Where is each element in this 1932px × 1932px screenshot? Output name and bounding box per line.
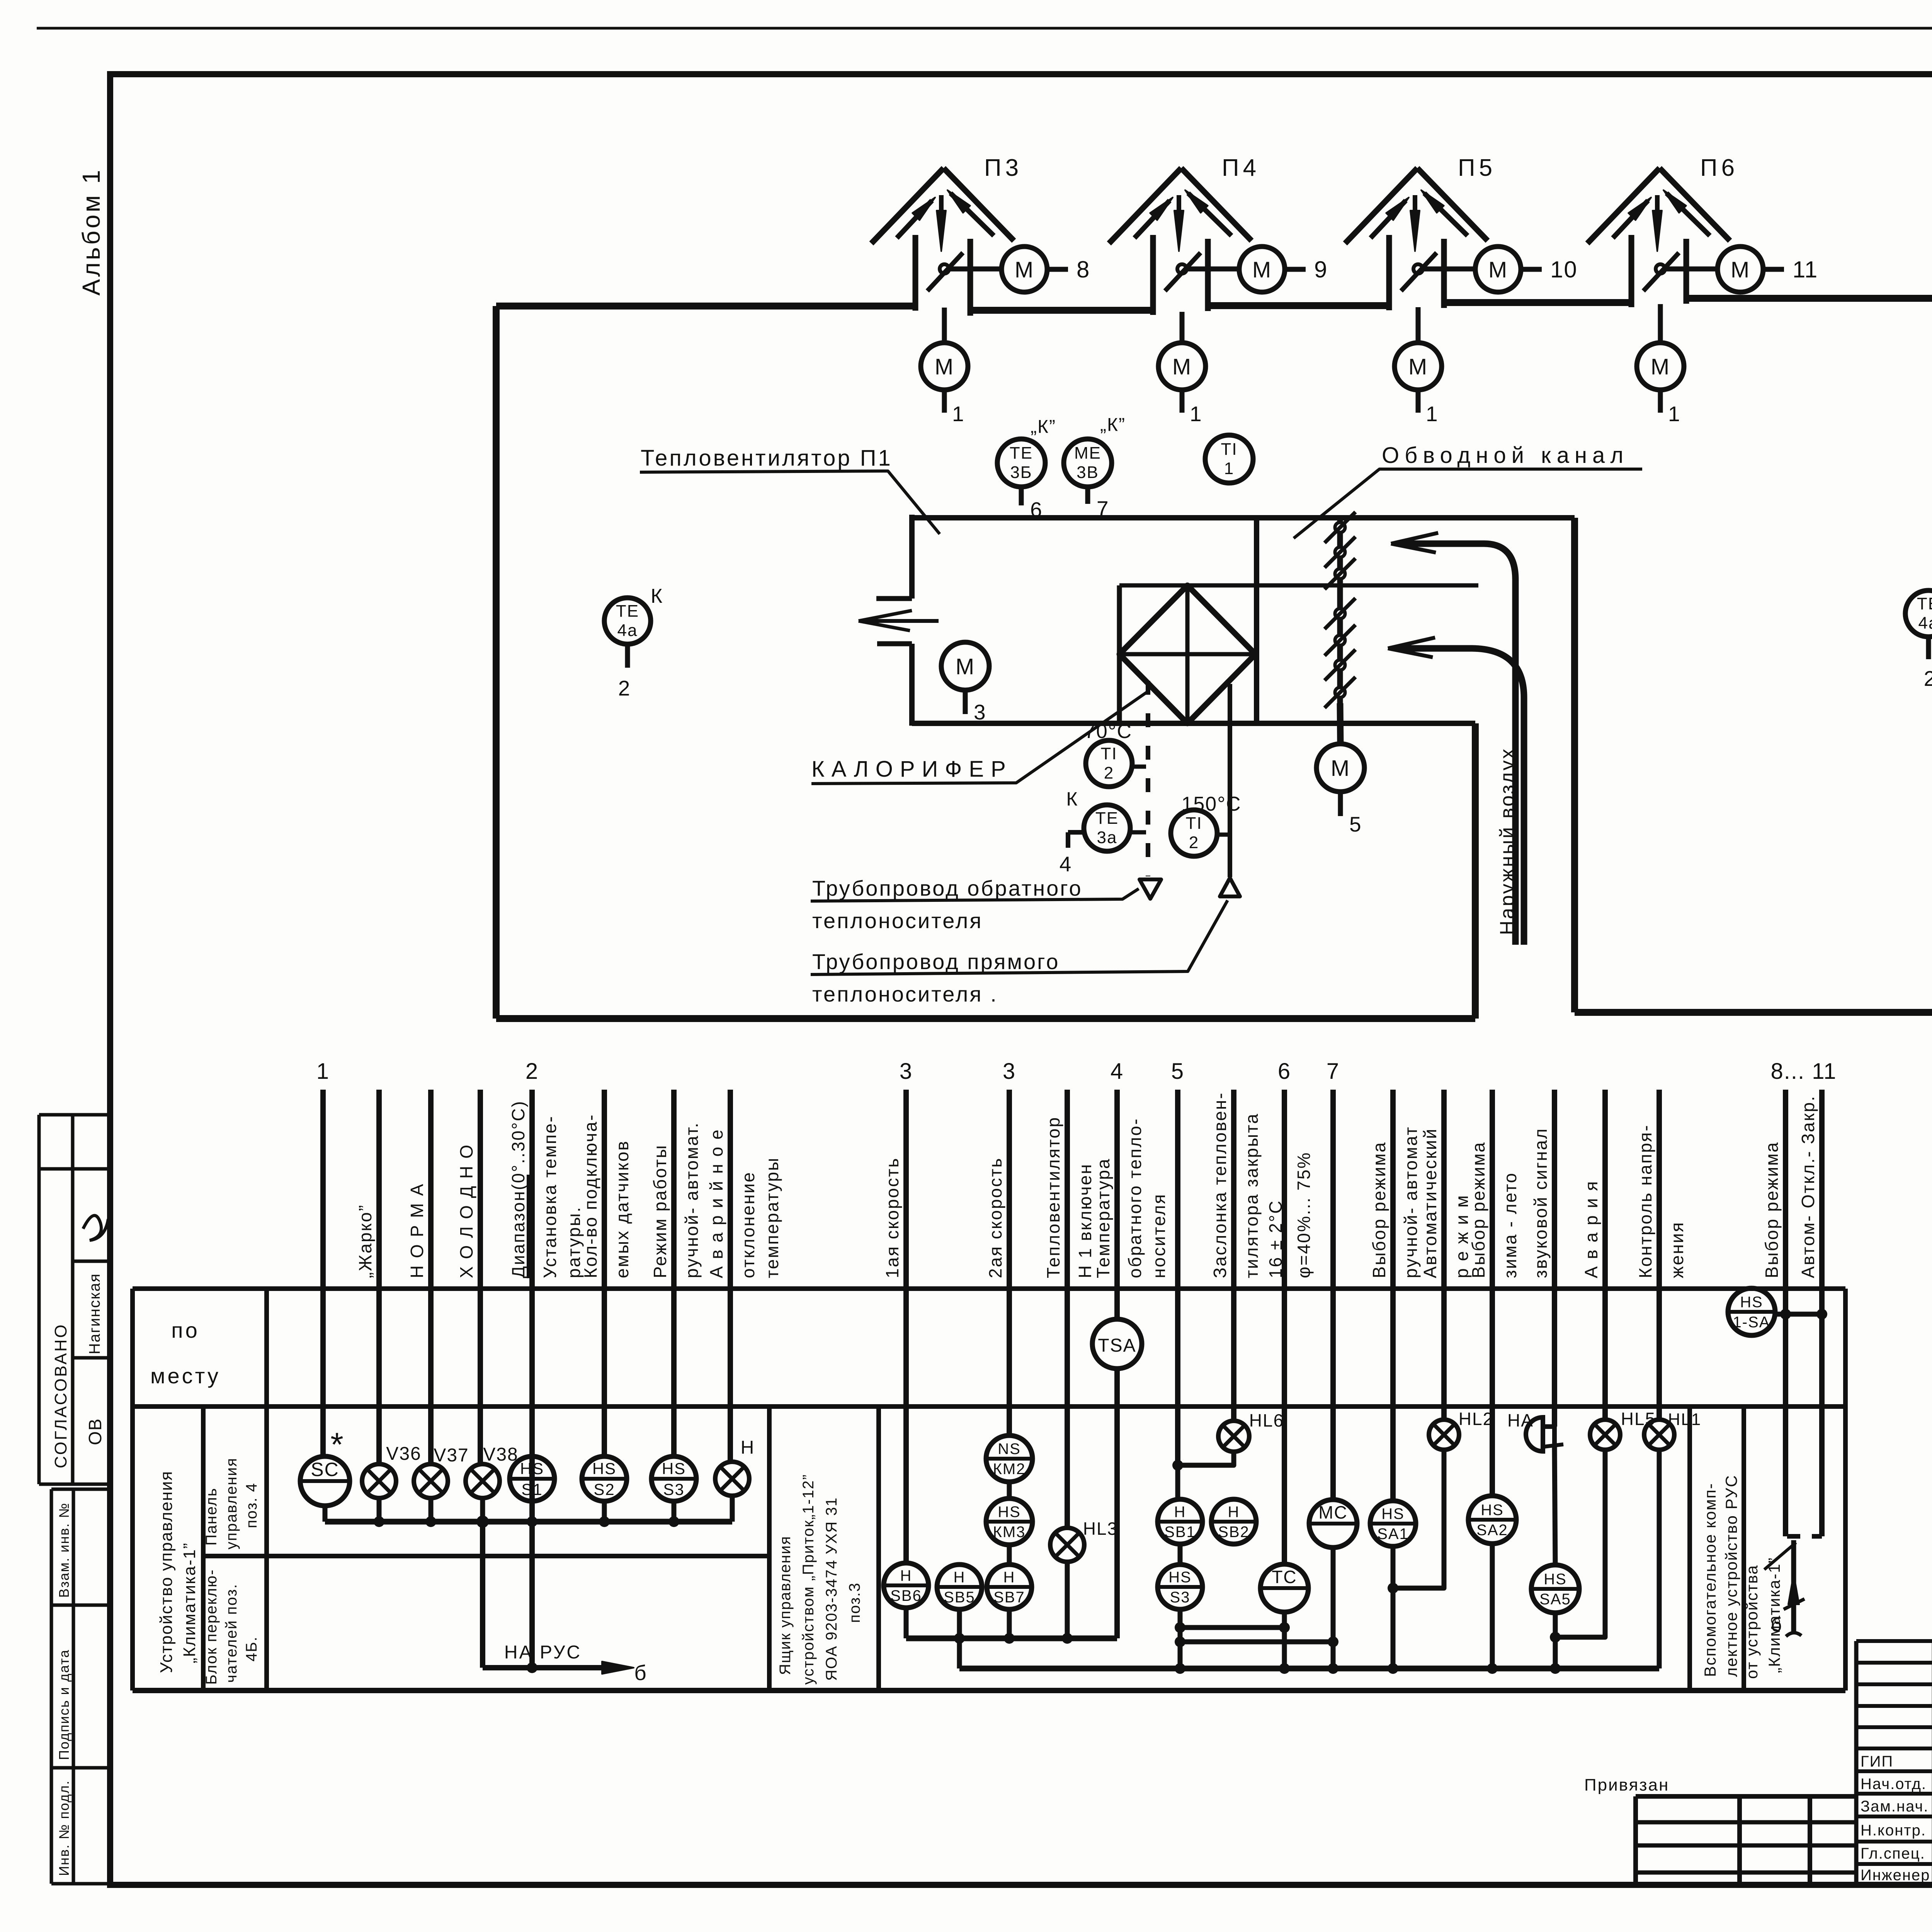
svg-text:SA1: SA1 — [1377, 1526, 1409, 1543]
button H SB5 — [937, 1565, 982, 1609]
svg-text:HS: HS — [662, 1459, 686, 1478]
svg-text:1: 1 — [1224, 459, 1234, 478]
underline for Диапазон — [527, 1175, 530, 1278]
junction dot MC link — [1328, 1636, 1338, 1647]
leader Тепловентилятор П1 — [640, 471, 940, 534]
wire MC bottom — [1331, 1548, 1336, 1668]
junction dot SA1 bus2 — [1388, 1663, 1398, 1674]
junction dot HL3 line — [1062, 1633, 1073, 1644]
curl at arrow end — [1786, 1633, 1801, 1636]
svg-text:СОГЛАСОВАНО: СОГЛАСОВАНО — [51, 1323, 70, 1468]
svg-text:теплоносителя: теплоносителя — [812, 908, 983, 933]
junction dot S3 upper link — [1175, 1622, 1185, 1633]
svg-text:Зам.нач.: Зам.нач. — [1861, 1798, 1929, 1815]
damper blade at 1365 — [1335, 522, 1345, 532]
svg-text:Автом- Откл.- Закр.: Автом- Откл.- Закр. — [1798, 1095, 1818, 1278]
svg-text:Привязан: Привязан — [1584, 1776, 1669, 1794]
wire shaft П6 down to supply motor — [1658, 304, 1663, 343]
svg-text:ТЕ: ТЕ — [1917, 594, 1932, 613]
shaft П4 supply fan motor M1 — [1158, 343, 1206, 390]
stamp signature squiggle — [83, 1216, 108, 1240]
svg-text:HL1: HL1 — [1668, 1410, 1702, 1429]
svg-text:чателей поз.: чателей поз. — [223, 1583, 240, 1683]
building bottom edge left part — [496, 1015, 1475, 1022]
shaft П3 supply arrow down — [939, 195, 944, 216]
lamp V37 — [414, 1464, 448, 1498]
damper blade at 1588 — [1335, 609, 1345, 619]
machine room right wall — [1472, 723, 1479, 1019]
lamp V38 — [466, 1464, 500, 1498]
svg-text:1ая скорость: 1ая скорость — [882, 1157, 902, 1278]
shaft П5 exhaust arrow left — [1371, 201, 1406, 238]
svg-text:Установка темпе-: Установка темпе- — [540, 1115, 560, 1278]
signature table grid — [1856, 1639, 1932, 1643]
wire SB1 to S3 — [1178, 1544, 1183, 1565]
svg-text:Вспомогательное комп-: Вспомогательное комп- — [1701, 1483, 1719, 1677]
svg-text:управления: управления — [223, 1458, 240, 1549]
wire shaft П5 down to supply motor — [1416, 307, 1421, 343]
svg-text:лектное устройство РУС: лектное устройство РУС — [1722, 1475, 1740, 1677]
shaft П6 roof — [1587, 168, 1660, 243]
signal line at x2762 — [1065, 1090, 1070, 1529]
privyazan table grid — [1636, 1794, 1856, 1799]
shaft П4 supply arrow down — [1177, 195, 1181, 216]
building top edge segment 4 — [1444, 299, 1631, 306]
supply pipe symbol triangle up — [1220, 878, 1240, 896]
junction dot TC bus2 — [1279, 1663, 1290, 1674]
svg-text:К: К — [651, 585, 663, 607]
junction dot V37 — [425, 1516, 436, 1527]
wire S2 to bus — [602, 1501, 607, 1522]
table top line — [133, 1286, 1845, 1291]
building top edge segment 1 — [496, 303, 915, 310]
svg-text:Гл.спец.: Гл.спец. — [1861, 1845, 1925, 1862]
svg-text:М: М — [1408, 354, 1428, 379]
junction dot SA2 bus2 — [1487, 1663, 1498, 1674]
table sub divider y4027 — [203, 1554, 769, 1558]
wire SA2 bottom — [1490, 1544, 1495, 1668]
svg-text:Контроль напря-: Контроль напря- — [1635, 1124, 1655, 1278]
svg-text:150°С: 150°С — [1181, 793, 1241, 815]
shaft П6 supply fan motor M1 — [1637, 343, 1684, 390]
svg-text:S3: S3 — [1170, 1589, 1190, 1606]
signal line at x1744 — [671, 1090, 677, 1456]
svg-text:2: 2 — [526, 1059, 539, 1084]
damper blade at 1485 — [1335, 569, 1345, 579]
wire V36 to bus — [377, 1498, 382, 1522]
wire damper to motor M5 — [1340, 703, 1340, 744]
signal line at x3193 — [1231, 1090, 1236, 1421]
shaft П4 exhaust arrow left — [1134, 201, 1170, 238]
svg-text:4а: 4а — [1918, 614, 1932, 633]
shaft П3 right wall — [968, 239, 973, 316]
svg-text:Обводной канал: Обводной канал — [1382, 443, 1629, 468]
junction dot TC link — [1279, 1622, 1290, 1633]
svg-text:М: М — [1331, 756, 1350, 781]
wire S3 to TC link — [1180, 1625, 1284, 1630]
signal line at x3605 — [1390, 1090, 1396, 1501]
svg-text:Н.контр.: Н.контр. — [1861, 1822, 1926, 1839]
svg-text:4а: 4а — [617, 621, 638, 640]
table bottom line — [133, 1688, 1845, 1693]
svg-text:Тепловентилятор П1: Тепловентилятор П1 — [641, 446, 893, 471]
wire M5 tick — [1338, 792, 1343, 816]
switch HS KM3 — [986, 1498, 1032, 1545]
shaft exhaust fan motor M10 — [1475, 247, 1521, 292]
shaft П5 left wall — [1386, 235, 1392, 310]
svg-text:S2: S2 — [594, 1480, 615, 1498]
svg-text:Н 1 включен: Н 1 включен — [1075, 1163, 1095, 1278]
controller TC — [1260, 1564, 1308, 1612]
shaft П4 roof — [1109, 168, 1181, 243]
svg-text:„Климатика-1”: „Климатика-1” — [1765, 1557, 1783, 1673]
kalorifer square — [1117, 585, 1122, 723]
return pipe dashed — [1146, 681, 1150, 876]
svg-text:3Б: 3Б — [1010, 463, 1032, 482]
svg-text:Н О Р М А: Н О Р М А — [407, 1183, 427, 1278]
wire motor M1 bottom tick П6 — [1658, 390, 1663, 413]
lamp V36 — [362, 1464, 396, 1498]
svg-text:SB5: SB5 — [944, 1589, 975, 1606]
wire from Klimatika arrow — [1791, 1540, 1796, 1634]
shaft П6 damper switch — [1656, 264, 1665, 274]
junction dot V36 — [374, 1516, 384, 1527]
svg-text:П6: П6 — [1700, 155, 1738, 181]
outside air curved arrow upper — [1399, 544, 1515, 945]
shaft П6 right wall — [1684, 239, 1689, 304]
wire shaft П4 down to supply motor — [1180, 312, 1185, 343]
svg-text:3: 3 — [974, 700, 986, 724]
table divider x4513 — [1742, 1406, 1746, 1690]
junction dot 1-SA line A — [1780, 1309, 1791, 1320]
svg-text:КАЛОРИФЕР: КАЛОРИФЕР — [811, 757, 1013, 782]
svg-text:Трубопровод обратного: Трубопровод обратного — [812, 876, 1083, 900]
junction dot at RUS line — [527, 1662, 537, 1673]
svg-text:Н: Н — [1228, 1503, 1240, 1520]
wire 1-SA link — [1775, 1312, 1822, 1317]
svg-text:1-SA: 1-SA — [1733, 1314, 1770, 1331]
building top edge segment 5 — [1686, 295, 1932, 302]
svg-text:по: по — [171, 1318, 199, 1342]
alarm TSA — [1092, 1319, 1142, 1369]
table left edge — [130, 1289, 135, 1690]
button H SB6 — [884, 1563, 929, 1608]
wire horn to SA5 — [1554, 1445, 1555, 1565]
shaft П5 supply arrow down — [1413, 195, 1417, 216]
wire line5 junction to HL6 — [1175, 1465, 1180, 1499]
stamp box lower group grid — [51, 1488, 110, 1491]
horn HA — [1526, 1417, 1543, 1451]
svg-text:Выбор режима: Выбор режима — [1762, 1141, 1782, 1278]
wire horn link — [1543, 1427, 1554, 1445]
wire TI2-70 to pipe — [1132, 765, 1146, 769]
fan motor M3 — [941, 642, 989, 690]
leader Обводной канал — [1294, 469, 1642, 538]
svg-text:Режим работы: Режим работы — [650, 1144, 670, 1278]
signal line at x2891 number 4 — [1114, 1090, 1120, 1319]
wire HL3 down — [1065, 1562, 1070, 1638]
wire shaft П3 down to supply motor — [942, 308, 947, 343]
svg-text:Взам. инв. №: Взам. инв. № — [56, 1502, 72, 1598]
svg-text:Н: Н — [1174, 1503, 1186, 1520]
building bottom edge right part — [1575, 1009, 1932, 1016]
signal line at x4621 — [1783, 1090, 1788, 1536]
svg-text:HS: HS — [1168, 1569, 1192, 1586]
damper line — [1337, 518, 1343, 746]
shaft П3 exhaust arrow right — [951, 193, 994, 236]
dashed link 8-11 — [1787, 1534, 1822, 1539]
signal line at x4294 — [1656, 1090, 1662, 1420]
kalorifer cross horizontal — [1119, 652, 1257, 656]
junction dot S3 — [668, 1516, 679, 1527]
wire H lamp to bus — [730, 1496, 735, 1522]
svg-text:S3: S3 — [663, 1480, 684, 1498]
svg-text:HS: HS — [1381, 1505, 1405, 1522]
svg-text:11: 11 — [1793, 257, 1818, 282]
svg-text:2: 2 — [1924, 667, 1932, 690]
svg-text:SA2: SA2 — [1476, 1522, 1508, 1539]
wire TE4a left tick — [625, 644, 630, 668]
wire TE4a right tick — [1926, 637, 1931, 659]
wire S1 to bus — [530, 1501, 535, 1522]
signal line at x3450 number 7 — [1330, 1090, 1336, 1500]
svg-text:5: 5 — [1349, 812, 1362, 836]
svg-text:М: М — [1731, 257, 1750, 282]
switch HS SA2 — [1468, 1496, 1516, 1544]
wire bus1 to bus2 connector — [957, 1638, 962, 1668]
wire KM3 down — [1007, 1545, 1012, 1565]
table divider x690 — [264, 1289, 269, 1690]
wire switch to motor 9 — [1188, 267, 1239, 272]
switch HS S3 pritok — [1158, 1565, 1202, 1609]
svg-text:тилятора закрыта: тилятора закрыта — [1242, 1113, 1262, 1278]
svg-text:КМ3: КМ3 — [993, 1524, 1026, 1541]
button H SB7 — [987, 1565, 1032, 1609]
svg-text:КМ2: КМ2 — [993, 1461, 1026, 1478]
svg-text:V38: V38 — [483, 1444, 518, 1465]
shaft П5 supply fan motor M1 — [1395, 343, 1442, 390]
shaft П3 damper switch — [940, 264, 949, 274]
wire SC to bus — [323, 1506, 328, 1522]
svg-text:жения: жения — [1667, 1221, 1687, 1278]
signal line at x2345 number 3 — [903, 1090, 909, 1563]
wire HL2 link — [1393, 1450, 1444, 1588]
svg-text:4: 4 — [1111, 1059, 1124, 1084]
svg-text:М: М — [1015, 257, 1034, 282]
svg-text:TSA: TSA — [1098, 1335, 1136, 1356]
svg-text:НА: НА — [1507, 1410, 1534, 1430]
wire M3 tick — [963, 690, 968, 714]
table right edge — [1843, 1289, 1848, 1690]
svg-text:„К”: „К” — [1031, 417, 1056, 437]
svg-text:П4: П4 — [1222, 155, 1260, 181]
damper blade at 1792 — [1335, 687, 1345, 697]
sensor ME 3В — [1064, 439, 1112, 487]
svg-text:Нач.отд.: Нач.отд. — [1861, 1776, 1927, 1793]
svg-text:HS: HS — [520, 1459, 544, 1478]
svg-text:HL3: HL3 — [1083, 1519, 1118, 1539]
svg-text:4: 4 — [1060, 852, 1072, 876]
svg-text:Н: Н — [900, 1567, 912, 1584]
svg-text:Заслонка тепловен-: Заслонка тепловен- — [1210, 1092, 1230, 1278]
heater outlet air arrow — [867, 619, 939, 623]
svg-text:1: 1 — [1668, 402, 1681, 426]
page trim line top — [37, 27, 1932, 30]
wire motor 10 tick — [1521, 267, 1542, 272]
wire SB5 to bus1 — [957, 1609, 962, 1638]
damper motor M5 — [1316, 744, 1364, 792]
junction dot 1-SA line B — [1816, 1309, 1827, 1320]
shaft П4 exhaust arrow right — [1188, 193, 1231, 236]
svg-text:HS: HS — [1740, 1294, 1763, 1311]
wire SB6 to bus1 — [904, 1608, 909, 1638]
shaft П6 left wall — [1629, 235, 1634, 307]
indicator TI 2 at 70C — [1086, 740, 1132, 787]
svg-text:HS: HS — [1544, 1571, 1567, 1588]
svg-text:3В: 3В — [1077, 463, 1099, 482]
signal line at x981 — [376, 1090, 382, 1465]
svg-text:ТС: ТС — [1272, 1567, 1297, 1587]
damper blade at 1657 — [1335, 635, 1345, 645]
leader return pipe — [811, 889, 1139, 901]
svg-text:8... 11: 8... 11 — [1771, 1059, 1837, 1084]
wire switch to motor 10 — [1424, 267, 1475, 272]
right room left wall — [1571, 518, 1578, 1012]
starter NS KM2 — [986, 1435, 1032, 1482]
shaft П6 exhaust arrow right — [1667, 193, 1710, 236]
wire SA5 bottom — [1553, 1613, 1558, 1668]
svg-text:6: 6 — [1030, 498, 1043, 522]
table divider x2274 — [876, 1406, 881, 1690]
svg-text:HS: HS — [592, 1459, 616, 1478]
svg-text:70°С: 70°С — [1084, 720, 1132, 743]
kalorifer mid line horizontal — [1119, 583, 1478, 588]
shaft П6 supply arrow down — [1655, 195, 1660, 216]
wire TC bottom — [1282, 1612, 1287, 1668]
junction dot SA5 bus2 — [1550, 1663, 1561, 1674]
button H SB1 — [1158, 1499, 1202, 1544]
pritok bus wire 2 — [959, 1666, 1659, 1672]
svg-text:Нагинская: Нагинская — [86, 1273, 103, 1354]
shaft П5 roof — [1345, 168, 1417, 243]
wire S3 bottom — [1178, 1609, 1183, 1668]
wire motor M1 bottom tick П5 — [1416, 390, 1421, 413]
junction dot S2 — [599, 1516, 610, 1527]
signal line at x2612 number 3 — [1007, 1090, 1012, 1435]
svg-text:теплоносителя .: теплоносителя . — [812, 982, 998, 1006]
svg-text:М: М — [1651, 354, 1670, 379]
svg-text:температуры: температуры — [762, 1157, 782, 1278]
switch HS S1 — [510, 1456, 554, 1501]
svg-text:поз.3: поз.3 — [846, 1582, 863, 1623]
signal line at x3862 — [1490, 1090, 1495, 1496]
supply pipe solid — [1228, 684, 1232, 877]
svg-text:1: 1 — [316, 1059, 330, 1084]
svg-text:Трубопровод прямого: Трубопровод прямого — [812, 949, 1060, 974]
shaft П3 exhaust arrow left — [897, 201, 932, 238]
svg-text:Тепловентилятор: Тепловентилятор — [1043, 1116, 1063, 1278]
damper blade at 1429 — [1335, 547, 1345, 557]
building left wall — [493, 306, 500, 1019]
svg-text:V37: V37 — [434, 1445, 469, 1466]
svg-text:8: 8 — [1077, 257, 1090, 282]
svg-text:ТЕ: ТЕ — [616, 602, 639, 621]
signal line at x1377 number 2 — [529, 1090, 535, 1668]
svg-text:5: 5 — [1171, 1059, 1184, 1084]
svg-text:устройством „Приток„1-12”: устройством „Приток„1-12” — [800, 1474, 817, 1685]
lamp HL1 — [1644, 1420, 1674, 1450]
svg-text:HS: HS — [1481, 1502, 1504, 1519]
kalorifer diamond — [1119, 585, 1255, 723]
indicator TI 2 at 150C — [1171, 810, 1217, 856]
svg-text:ЯОА 9203-3474 УХЯ 31: ЯОА 9203-3474 УХЯ 31 — [823, 1497, 840, 1681]
svg-text:HL6: HL6 — [1249, 1410, 1284, 1430]
svg-text:6: 6 — [1278, 1059, 1291, 1084]
svg-text:ТЕ: ТЕ — [1010, 444, 1033, 463]
svg-text:Х О Л О Д Н О: Х О Л О Д Н О — [456, 1144, 476, 1278]
svg-text:SB2: SB2 — [1218, 1524, 1250, 1541]
svg-text:V36: V36 — [386, 1444, 421, 1464]
shaft П6 exhaust arrow left — [1613, 201, 1648, 238]
leader supply pipe — [811, 900, 1228, 975]
svg-text:ТI: ТI — [1185, 814, 1202, 833]
svg-text:от устройства: от устройства — [1743, 1565, 1761, 1679]
svg-text:МЕ: МЕ — [1074, 444, 1101, 463]
svg-text:К: К — [1066, 788, 1078, 810]
svg-text:φ=40%... 75%: φ=40%... 75% — [1294, 1151, 1314, 1278]
signal line at x1890 — [728, 1090, 733, 1463]
stamp box upper group grid — [39, 1113, 110, 1117]
switch HS SA1 — [1370, 1501, 1416, 1546]
kalorifer cross vertical — [1185, 585, 1190, 723]
svg-text:Подпись и дата: Подпись и дата — [56, 1649, 72, 1760]
building top edge segment 3 — [1208, 302, 1389, 309]
svg-text:4Б.: 4Б. — [243, 1636, 260, 1662]
svg-text:Альбом 1: Альбом 1 — [77, 168, 105, 296]
wire motor M1 bottom tick П3 — [942, 390, 947, 413]
controller SC — [300, 1456, 350, 1506]
heater outlet duct bottom — [877, 641, 912, 646]
lamp HL5 — [1590, 1420, 1620, 1450]
svg-text:2: 2 — [618, 676, 631, 700]
svg-text:SA5: SA5 — [1539, 1591, 1571, 1608]
svg-text:емых датчиков: емых датчиков — [612, 1140, 632, 1278]
wire TI2-150 to pipe — [1217, 833, 1230, 837]
signal line at x3324 number 6 — [1282, 1090, 1287, 1564]
switch HS S2 — [582, 1456, 627, 1501]
svg-text:10: 10 — [1550, 257, 1578, 282]
svg-text:Диапазон(0°..30°С): Диапазон(0°..30°С) — [508, 1100, 528, 1278]
svg-text:Кол-во подключа-: Кол-во подключа- — [580, 1114, 600, 1278]
svg-text:Наружный воздух: Наружный воздух — [1496, 747, 1519, 935]
svg-text:Выбор режима: Выбор режима — [1369, 1141, 1389, 1278]
svg-text:А в а р и я: А в а р и я — [1581, 1180, 1601, 1278]
signal line at x4023 — [1552, 1090, 1557, 1427]
svg-text:9: 9 — [1314, 257, 1328, 282]
wire V37 to bus — [429, 1498, 434, 1522]
svg-text:ручной- автомат.: ручной- автомат. — [682, 1122, 702, 1278]
shaft П4 left wall — [1150, 235, 1156, 315]
svg-text:ТЕ: ТЕ — [1095, 809, 1119, 828]
signal line at x4715 — [1819, 1090, 1825, 1536]
svg-text:отклонение: отклонение — [738, 1171, 758, 1278]
svg-text:звуковой сигнал: звуковой сигнал — [1531, 1128, 1551, 1278]
heater box left wall upper — [909, 515, 915, 599]
shaft П3 supply fan motor M1 — [921, 343, 968, 390]
wire ME3В tick — [1085, 487, 1090, 504]
table divider x4373 — [1687, 1406, 1692, 1690]
svg-text:„Климатика-1”: „Климатика-1” — [180, 1543, 199, 1663]
